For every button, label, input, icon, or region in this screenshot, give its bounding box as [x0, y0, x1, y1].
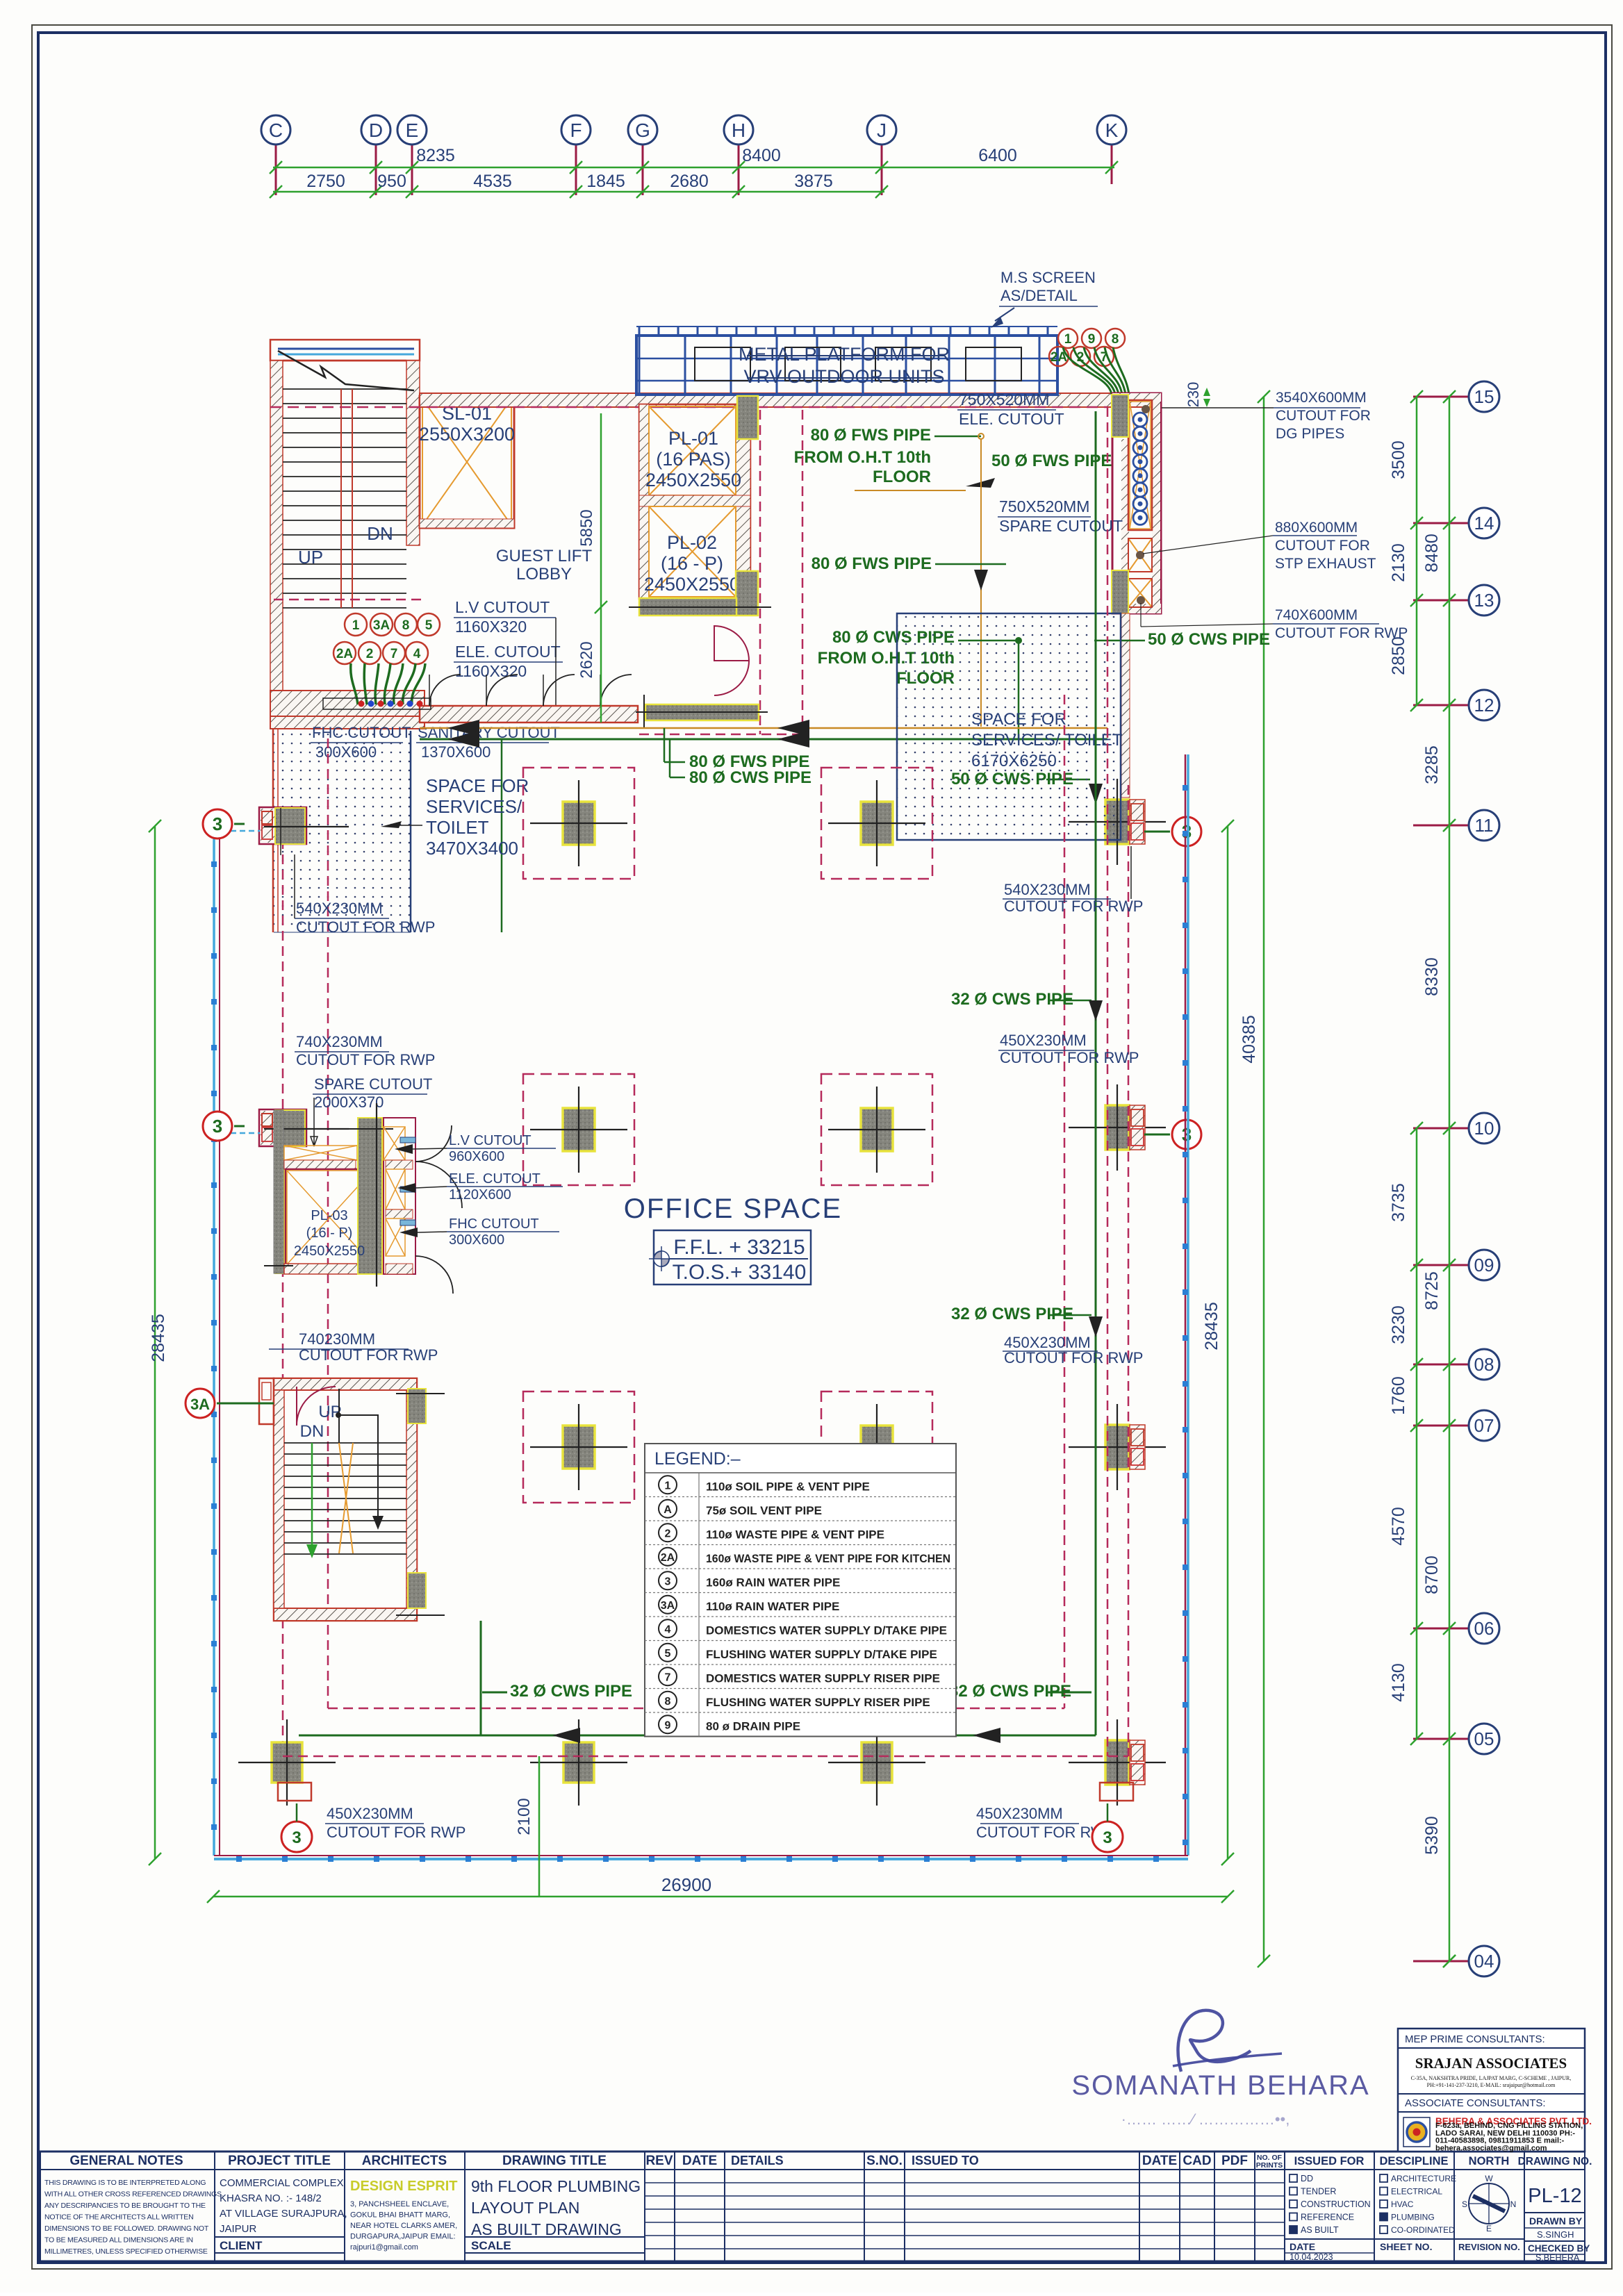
- numbered pipe circles top: [1058, 329, 1078, 348]
- sanitary doors: [429, 675, 461, 706]
- svg-text:2550X3200: 2550X3200: [419, 424, 515, 445]
- stair treads top-left: [283, 388, 406, 390]
- svg-text:PRINTS: PRINTS: [1256, 2161, 1283, 2170]
- svg-text:FLOOR: FLOOR: [873, 468, 931, 486]
- consultants box: [1398, 2029, 1592, 2152]
- grid bubble 3 right row1: [1172, 817, 1201, 846]
- svg-text:ELE. CUTOUT: ELE. CUTOUT: [449, 1171, 541, 1187]
- svg-text:1160X320: 1160X320: [455, 618, 527, 636]
- svg-text:1760: 1760: [1389, 1376, 1408, 1415]
- pipe id labels: [664, 728, 666, 762]
- top wall hatched: [420, 393, 1161, 407]
- svg-text:3: 3: [665, 1576, 671, 1587]
- svg-text:40385: 40385: [1239, 1015, 1259, 1064]
- svg-text:NEAR HOTEL CLARKS AMER,: NEAR HOTEL CLARKS AMER,: [350, 2222, 457, 2230]
- svg-text:W: W: [1485, 2174, 1493, 2183]
- svg-text:DN: DN: [300, 1422, 324, 1441]
- svg-text:GUEST LIFT: GUEST LIFT: [496, 547, 593, 565]
- svg-text:12: 12: [1474, 695, 1494, 716]
- svg-text:COMMERCIAL COMPLEX: COMMERCIAL COMPLEX: [220, 2177, 344, 2189]
- svg-text:50 Ø FWS PIPE: 50 Ø FWS PIPE: [991, 452, 1112, 470]
- svg-text:50 Ø CWS PIPE: 50 Ø CWS PIPE: [1148, 630, 1270, 649]
- svg-text:540X230MM: 540X230MM: [296, 900, 383, 917]
- svg-text:HVAC: HVAC: [1391, 2199, 1414, 2209]
- svg-text:THIS DRAWING IS TO BE INTERPRE: THIS DRAWING IS TO BE INTERPRETED ALONG: [44, 2179, 206, 2187]
- svg-text:08: 08: [1474, 1354, 1494, 1375]
- svg-text:AS BUILT: AS BUILT: [1301, 2225, 1339, 2235]
- top-left stair block walls: [270, 340, 420, 361]
- svg-text:D: D: [369, 119, 383, 141]
- svg-text:ELECTRICAL: ELECTRICAL: [1391, 2187, 1442, 2197]
- svg-text:DATE: DATE: [1290, 2241, 1315, 2252]
- svg-text:ELE. CUTOUT: ELE. CUTOUT: [455, 643, 561, 661]
- legend table: [645, 1444, 956, 1737]
- svg-text:750X520MM: 750X520MM: [959, 390, 1049, 408]
- svg-text:7: 7: [390, 647, 398, 661]
- svg-text:450X230MM: 450X230MM: [1000, 1032, 1087, 1049]
- svg-text:NORTH: NORTH: [1469, 2155, 1510, 2167]
- svg-text:M.S SCREEN: M.S SCREEN: [1000, 269, 1096, 286]
- svg-text:11: 11: [1475, 815, 1494, 836]
- services dotted area right: [897, 613, 1121, 840]
- lift SL-01: [420, 396, 514, 528]
- grid bubble 09: [1469, 1250, 1499, 1280]
- svg-text:CLIENT: CLIENT: [220, 2239, 263, 2252]
- svg-text:CUTOUT FOR: CUTOUT FOR: [1275, 538, 1370, 554]
- svg-text:3470X3400: 3470X3400: [426, 838, 518, 859]
- right 28435 dim: [1227, 826, 1229, 1859]
- bottom boundary: [214, 1858, 1188, 1860]
- top-right service block: [1112, 393, 1161, 613]
- svg-text:A: A: [664, 1504, 672, 1516]
- svg-text:DN: DN: [367, 523, 393, 544]
- svg-text:9: 9: [665, 1719, 671, 1731]
- grid bubble 11: [1469, 810, 1499, 841]
- svg-text:CHECKED BY: CHECKED BY: [1528, 2243, 1590, 2254]
- svg-text:950: 950: [377, 172, 406, 191]
- lift PL-02: [649, 506, 736, 597]
- svg-text:S.NO.: S.NO.: [866, 2154, 903, 2168]
- svg-text:07: 07: [1474, 1415, 1494, 1436]
- svg-text:450X230MM: 450X230MM: [327, 1805, 413, 1822]
- behera logo: [1403, 2117, 1430, 2147]
- svg-text:10.04.2023: 10.04.2023: [1290, 2252, 1333, 2262]
- svg-text:3: 3: [292, 1828, 301, 1847]
- svg-text:CUTOUT FOR RWP: CUTOUT FOR RWP: [296, 1051, 435, 1068]
- svg-text:JAIPUR: JAIPUR: [220, 2223, 257, 2235]
- grid bubble F: [561, 115, 591, 144]
- svg-text:9th FLOOR PLUMBING: 9th FLOOR PLUMBING: [471, 2177, 641, 2195]
- svg-text:4570: 4570: [1389, 1507, 1408, 1546]
- svg-text:E: E: [1486, 2224, 1492, 2233]
- title block: [38, 2152, 1592, 2263]
- svg-text:1370X600: 1370X600: [421, 743, 491, 761]
- svg-text:G: G: [635, 119, 650, 141]
- svg-text:4535: 4535: [473, 172, 512, 191]
- svg-text:2750: 2750: [306, 172, 345, 191]
- grid bubble 13: [1469, 585, 1499, 616]
- svg-text:N: N: [1510, 2199, 1517, 2209]
- svg-text:5850: 5850: [577, 509, 596, 546]
- svg-text:80 Ø CWS PIPE: 80 Ø CWS PIPE: [689, 768, 811, 787]
- grid bubble E: [397, 115, 427, 144]
- svg-text:05: 05: [1474, 1728, 1494, 1749]
- sanitary wall: [420, 706, 638, 722]
- svg-text:8235: 8235: [416, 146, 455, 165]
- svg-text:K: K: [1105, 119, 1119, 141]
- grid bubble 14: [1469, 508, 1499, 538]
- svg-text:75ø SOIL VENT PIPE: 75ø SOIL VENT PIPE: [706, 1504, 822, 1517]
- grid bubble 15: [1469, 381, 1499, 412]
- numbered pipe circles left: [345, 613, 367, 636]
- green pipe down from sanitary: [501, 739, 503, 932]
- 40385 dim line: [1263, 397, 1265, 1961]
- lift PL-03: [274, 1166, 287, 1274]
- svg-text:2: 2: [665, 1528, 671, 1539]
- svg-text:80 ø DRAIN PIPE: 80 ø DRAIN PIPE: [706, 1719, 800, 1733]
- svg-text:DG PIPES: DG PIPES: [1276, 426, 1344, 442]
- signature stamp: [1071, 2010, 1369, 2128]
- svg-text:S.SINGH: S.SINGH: [1537, 2229, 1574, 2240]
- svg-text:REV: REV: [645, 2154, 673, 2168]
- svg-text:SERVICES/: SERVICES/: [426, 796, 522, 817]
- svg-text:PL-12: PL-12: [1528, 2185, 1581, 2207]
- svg-text:3A: 3A: [190, 1396, 210, 1413]
- svg-text:32 Ø CWS PIPE: 32 Ø CWS PIPE: [951, 1305, 1073, 1323]
- PL-03 doors: [415, 1125, 452, 1162]
- svg-text:3735: 3735: [1389, 1183, 1408, 1222]
- svg-text:3: 3: [213, 813, 222, 834]
- svg-text:ANY DESCRIPANCIES TO BE BROUG: ANY DESCRIPANCIES TO BE BROUGHT TO THE: [44, 2202, 206, 2210]
- svg-text:CONSTRUCTION: CONSTRUCTION: [1301, 2199, 1371, 2209]
- right dimension chain lines: [1449, 397, 1451, 1961]
- svg-text:8725: 8725: [1422, 1271, 1442, 1310]
- svg-text:REVISION NO.: REVISION NO.: [1458, 2242, 1520, 2252]
- grid bubble 12: [1469, 690, 1499, 720]
- svg-text:DURGAPURA,JAIPUR EMAIL:: DURGAPURA,JAIPUR EMAIL:: [350, 2233, 456, 2241]
- grid bubble 3A left: [186, 1389, 215, 1418]
- svg-text:FLUSHING WATER SUPPLY D/TAK: FLUSHING WATER SUPPLY D/TAKE PIPE: [706, 1648, 937, 1661]
- svg-text:2450X2550: 2450X2550: [294, 1244, 365, 1259]
- svg-text:CO-ORDINATED: CO-ORDINATED: [1391, 2225, 1455, 2235]
- svg-text:SPARE CUTOUT: SPARE CUTOUT: [314, 1075, 432, 1093]
- svg-text:SPARE CUTOUT: SPARE CUTOUT: [999, 517, 1123, 535]
- svg-text:2620: 2620: [577, 641, 596, 678]
- horizontal pipe runs: [420, 727, 1107, 729]
- svg-text:ASSOCIATE CONSULTANTS:: ASSOCIATE CONSULTANTS:: [1405, 2097, 1546, 2109]
- svg-text:4130: 4130: [1389, 1663, 1408, 1702]
- svg-text:3500: 3500: [1389, 440, 1408, 479]
- red cutout at stair top-left: [259, 1378, 274, 1424]
- grid bubble 07: [1469, 1410, 1499, 1441]
- beam below PL-02: [639, 598, 736, 616]
- svg-text:(16 - P): (16 - P): [661, 553, 723, 574]
- svg-text:L.V CUTOUT: L.V CUTOUT: [455, 598, 550, 616]
- svg-text:CUTOUT FOR RWP: CUTOUT FOR RWP: [1275, 625, 1408, 641]
- right boundary: [1185, 754, 1187, 1856]
- svg-text:GENERAL NOTES: GENERAL NOTES: [69, 2154, 183, 2168]
- double door right of PL-02: [714, 626, 749, 661]
- svg-text:REFERENCE: REFERENCE: [1301, 2213, 1354, 2222]
- svg-text:DATE: DATE: [682, 2154, 717, 2168]
- left dashed verticals: [282, 824, 284, 1756]
- svg-text:2130: 2130: [1389, 543, 1408, 582]
- 26900 dim: [213, 1896, 1228, 1898]
- dashed landing line: [274, 599, 425, 601]
- svg-text:2850: 2850: [1389, 636, 1408, 675]
- svg-text:80 Ø FWS PIPE: 80 Ø FWS PIPE: [811, 426, 931, 445]
- svg-text:SERVICES/ TOILET: SERVICES/ TOILET: [971, 731, 1123, 750]
- svg-text:OFFICE SPACE: OFFICE SPACE: [624, 1194, 842, 1224]
- svg-text:LAYOUT PLAN: LAYOUT PLAN: [471, 2199, 579, 2217]
- svg-text:1160X320: 1160X320: [455, 662, 527, 680]
- left 28435 dim: [154, 826, 156, 1859]
- svg-text:ARCHITECTURE: ARCHITECTURE: [1391, 2174, 1456, 2183]
- svg-text:8: 8: [665, 1696, 671, 1708]
- svg-text:METAL PLATFORM FOR: METAL PLATFORM FOR: [739, 344, 950, 365]
- svg-text:TENDER: TENDER: [1301, 2187, 1336, 2197]
- 5850 2620 dims: [600, 413, 602, 722]
- beam below sanitary: [645, 704, 759, 720]
- grid bubble 05: [1469, 1724, 1499, 1754]
- svg-text:H: H: [732, 119, 745, 141]
- stair block bottom wall: [270, 691, 425, 716]
- svg-text:F.F.L. + 33215: F.F.L. + 33215: [673, 1236, 805, 1259]
- svg-text:3A: 3A: [373, 618, 390, 633]
- bottom CWS pipe run: [299, 1735, 1096, 1737]
- stair door arc: [297, 1387, 336, 1426]
- svg-text:MEP PRIME CONSULTANTS:: MEP PRIME CONSULTANTS:: [1405, 2033, 1545, 2045]
- svg-text:5390: 5390: [1422, 1816, 1442, 1855]
- svg-text:160ø RAIN WATER PIPE: 160ø RAIN WATER PIPE: [706, 1576, 840, 1589]
- svg-text:DESCIPLINE: DESCIPLINE: [1379, 2155, 1448, 2167]
- svg-text:PL-01: PL-01: [668, 428, 718, 449]
- svg-text:32 Ø CWS PIPE: 32 Ø CWS PIPE: [951, 990, 1073, 1009]
- svg-text:110ø SOIL PIPE & VENT PIP: 110ø SOIL PIPE & VENT PIPE: [706, 1480, 870, 1493]
- svg-text:4: 4: [413, 647, 421, 661]
- svg-text:DOMESTICS WATER SUPPLY D/TA: DOMESTICS WATER SUPPLY D/TAKE PIPE: [706, 1624, 947, 1637]
- svg-text:DOMESTICS WATER SUPPLY RISE: DOMESTICS WATER SUPPLY RISER PIPE: [706, 1671, 940, 1685]
- svg-text:230: 230: [1185, 382, 1202, 408]
- svg-text:450X230MM: 450X230MM: [976, 1805, 1063, 1822]
- svg-text:T.O.S.+ 33140: T.O.S.+ 33140: [673, 1261, 807, 1284]
- svg-text:1845: 1845: [586, 172, 625, 191]
- top grid stems: [275, 144, 277, 195]
- valve row: [323, 698, 431, 709]
- svg-text:09: 09: [1474, 1255, 1494, 1275]
- svg-text:110ø RAIN WATER PIPE: 110ø RAIN WATER PIPE: [706, 1600, 839, 1613]
- interior columns: [523, 768, 634, 879]
- left boundary cyan: [213, 824, 215, 1856]
- dashed corridor lines: [759, 410, 761, 734]
- svg-text:SOMANATH BEHARA: SOMANATH BEHARA: [1071, 2070, 1369, 2101]
- svg-text:15: 15: [1474, 386, 1494, 407]
- svg-text:3875: 3875: [794, 172, 833, 191]
- svg-text:DATE: DATE: [1142, 2154, 1177, 2168]
- svg-text:960X600: 960X600: [449, 1149, 504, 1164]
- svg-text:8330: 8330: [1422, 957, 1442, 996]
- svg-text:FHC CUTOUT: FHC CUTOUT: [449, 1216, 539, 1232]
- grid bubble D: [361, 115, 390, 144]
- svg-text:8: 8: [1112, 332, 1119, 347]
- svg-text:ELE. CUTOUT: ELE. CUTOUT: [959, 410, 1064, 428]
- grid bubble K: [1097, 115, 1126, 144]
- svg-text:28435: 28435: [149, 1314, 168, 1362]
- svg-text:MILLIMETRES, UNLESS SPECIFIED: MILLIMETRES, UNLESS SPECIFIED OTHERWISE: [44, 2247, 208, 2256]
- toilet dotted area left: [274, 731, 411, 932]
- svg-text:DETAILS: DETAILS: [731, 2154, 784, 2167]
- svg-text:300X600: 300X600: [449, 1232, 504, 1248]
- PL-03 central column: [358, 1118, 382, 1274]
- svg-text:DRAWING TITLE: DRAWING TITLE: [502, 2154, 607, 2168]
- svg-text:J: J: [877, 119, 887, 141]
- svg-text:1: 1: [352, 618, 360, 633]
- svg-text:3: 3: [1103, 1828, 1112, 1847]
- svg-text:L.V CUTOUT: L.V CUTOUT: [449, 1133, 532, 1148]
- svg-text:CUTOUT FOR RWP: CUTOUT FOR RWP: [1000, 1049, 1139, 1066]
- svg-text:F: F: [570, 119, 582, 141]
- svg-text:6400: 6400: [978, 146, 1017, 165]
- svg-text:3: 3: [1182, 1124, 1192, 1145]
- svg-text:2680: 2680: [670, 172, 709, 191]
- svg-text:8: 8: [402, 618, 410, 633]
- svg-text:7: 7: [665, 1671, 671, 1683]
- svg-text:160ø WASTE PIPE & VENT PI: 160ø WASTE PIPE & VENT PIPE FOR KITCHEN: [706, 1552, 950, 1565]
- svg-text:PLUMBING: PLUMBING: [1391, 2213, 1435, 2222]
- svg-text:6170X6250: 6170X6250: [971, 752, 1057, 770]
- grid bubble 3 left row1: [203, 809, 232, 839]
- svg-text:(16 PAS): (16 PAS): [656, 449, 731, 470]
- svg-text:(16 - P): (16 - P): [306, 1225, 353, 1241]
- svg-text:DIMENSIONS TO BE FOLLOWED. DR: DIMENSIONS TO BE FOLLOWED. DRAWING NOT: [44, 2224, 209, 2233]
- svg-text:2A: 2A: [661, 1552, 675, 1564]
- svg-text:C: C: [269, 119, 283, 141]
- svg-text:4: 4: [665, 1624, 671, 1635]
- svg-text:SRAJAN ASSOCIATES: SRAJAN ASSOCIATES: [1415, 2055, 1567, 2072]
- gray columns top-right block: [1112, 395, 1128, 437]
- svg-text:10: 10: [1474, 1118, 1494, 1139]
- top dimension lines: [273, 167, 1114, 169]
- svg-text:ISSUED FOR: ISSUED FOR: [1294, 2155, 1365, 2167]
- svg-text:3230: 3230: [1389, 1305, 1408, 1344]
- svg-text:STP EXHAUST: STP EXHAUST: [1275, 556, 1376, 572]
- svg-text:E: E: [406, 119, 419, 141]
- boundary bottom columns: [272, 1742, 302, 1783]
- grid bubble H: [724, 115, 753, 144]
- svg-text:WITH ALL OTHER CROSS REFERENCE: WITH ALL OTHER CROSS REFERENCED DRAWINGS…: [44, 2190, 224, 2199]
- svg-text:3, PANCHSHEEL ENCLAVE,: 3, PANCHSHEEL ENCLAVE,: [350, 2200, 449, 2208]
- svg-text:CUTOUT FOR: CUTOUT FOR: [1276, 408, 1371, 424]
- svg-text:FLUSHING WATER SUPPLY RISER: FLUSHING WATER SUPPLY RISER PIPE: [706, 1696, 930, 1709]
- grid bubble 3 bottom left: [281, 1822, 312, 1852]
- svg-text:NOTICE OF THE ARCHITECTS ALL: NOTICE OF THE ARCHITECTS ALL WRITTEN: [44, 2213, 194, 2222]
- svg-text:·…… ……⁄ ……………••,: ·…… ……⁄ ……………••,: [1121, 2111, 1290, 2128]
- svg-text:UP: UP: [318, 1403, 341, 1421]
- svg-text:FROM O.H.T 10th: FROM O.H.T 10th: [794, 448, 931, 467]
- svg-text:S.BEHERA: S.BEHERA: [1535, 2253, 1580, 2263]
- svg-text:DD: DD: [1301, 2174, 1313, 2183]
- north compass: [1469, 2183, 1509, 2224]
- PL-03 side cutouts: [384, 1118, 415, 1274]
- grid bubble 3 right row2: [1172, 1120, 1201, 1149]
- svg-text:750X520MM: 750X520MM: [999, 497, 1089, 515]
- svg-text:32 Ø CWS PIPE: 32 Ø CWS PIPE: [510, 1682, 632, 1701]
- 2100 dim: [538, 1756, 541, 1897]
- PL-03 shaft: [286, 1169, 374, 1266]
- svg-text:LEGEND:–: LEGEND:–: [654, 1449, 741, 1469]
- svg-text:AS/DETAIL: AS/DETAIL: [1000, 287, 1078, 304]
- svg-text:2: 2: [366, 647, 374, 661]
- spare cutout X band: [284, 1146, 357, 1160]
- svg-text:1120X600: 1120X600: [449, 1187, 511, 1203]
- svg-text:540X230MM: 540X230MM: [1004, 881, 1091, 898]
- svg-text:PH:+91-141-237-3210, E-MAIL: s: PH:+91-141-237-3210, E-MAIL: srajaipur@h…: [1427, 2082, 1556, 2088]
- grid bubble 3 left row2: [203, 1112, 232, 1141]
- svg-text:06: 06: [1474, 1618, 1494, 1639]
- svg-text:TO BE MEASURED ALL DIMENSIONS: TO BE MEASURED ALL DIMENSIONS ARE IN: [44, 2236, 193, 2245]
- svg-text:8400: 8400: [742, 146, 781, 165]
- right wall columns: [1105, 800, 1129, 844]
- svg-text:740230MM: 740230MM: [299, 1330, 375, 1348]
- svg-text:PL-03: PL-03: [311, 1208, 347, 1223]
- svg-text:14: 14: [1474, 513, 1494, 534]
- cutout boxes below vent shaft: [1128, 538, 1152, 572]
- svg-text:110ø WASTE PIPE & VENT PI: 110ø WASTE PIPE & VENT PIPE: [706, 1528, 884, 1541]
- svg-text:PDF: PDF: [1221, 2154, 1248, 2168]
- grid bubble 10: [1469, 1113, 1499, 1143]
- svg-text:CUTOUT FOR RWP: CUTOUT FOR RWP: [296, 918, 435, 936]
- svg-text:SHEET NO.: SHEET NO.: [1380, 2241, 1432, 2252]
- svg-text:KHASRA NO. :- 148/2: KHASRA NO. :- 148/2: [220, 2192, 322, 2204]
- svg-text:SPACE FOR: SPACE FOR: [426, 775, 529, 796]
- PL-03 bottom wall: [284, 1264, 374, 1274]
- svg-text:CUTOUT FOR RWP: CUTOUT FOR RWP: [1004, 898, 1143, 915]
- svg-text:04: 04: [1474, 1951, 1494, 1972]
- section cut line: [278, 351, 414, 390]
- svg-text:TOILET: TOILET: [426, 817, 489, 838]
- svg-text:AS BUILT DRAWING: AS BUILT DRAWING: [471, 2220, 622, 2238]
- grid bubble G: [628, 115, 657, 144]
- svg-text:1: 1: [1064, 332, 1072, 347]
- grid bubble J: [867, 115, 896, 144]
- hatch strip below services: [1121, 613, 1130, 798]
- grid bubble 3 bottom right: [1092, 1822, 1123, 1852]
- bottom stair block: [274, 1378, 417, 1621]
- svg-text:740X230MM: 740X230MM: [296, 1033, 383, 1050]
- stair treads bottom: [284, 1442, 406, 1444]
- svg-text:DRAWN BY: DRAWN BY: [1529, 2215, 1583, 2227]
- svg-text:CUTOUT FOR RWP: CUTOUT FOR RWP: [327, 1824, 466, 1841]
- svg-text:3A: 3A: [661, 1600, 675, 1612]
- svg-text:SCALE: SCALE: [471, 2239, 511, 2252]
- svg-text:2450X2550: 2450X2550: [645, 470, 741, 490]
- lift PL-01: [639, 404, 750, 599]
- svg-text:740X600MM: 740X600MM: [1275, 607, 1358, 623]
- svg-text:80 Ø FWS PIPE: 80 Ø FWS PIPE: [811, 554, 932, 573]
- svg-text:SPACE FOR: SPACE FOR: [971, 710, 1066, 729]
- svg-text:PROJECT TITLE: PROJECT TITLE: [228, 2154, 331, 2168]
- svg-text:CAD: CAD: [1183, 2154, 1211, 2168]
- grid bubble 08: [1469, 1349, 1499, 1380]
- svg-text:3540X600MM: 3540X600MM: [1276, 390, 1367, 406]
- svg-text:ARCHITECTS: ARCHITECTS: [362, 2154, 447, 2168]
- svg-text:ISSUED TO: ISSUED TO: [912, 2154, 979, 2167]
- svg-text:LOBBY: LOBBY: [516, 565, 572, 584]
- svg-text:2000X370: 2000X370: [314, 1093, 384, 1111]
- svg-text:8480: 8480: [1422, 534, 1442, 572]
- svg-text:13: 13: [1474, 590, 1494, 611]
- svg-text:5: 5: [425, 618, 433, 633]
